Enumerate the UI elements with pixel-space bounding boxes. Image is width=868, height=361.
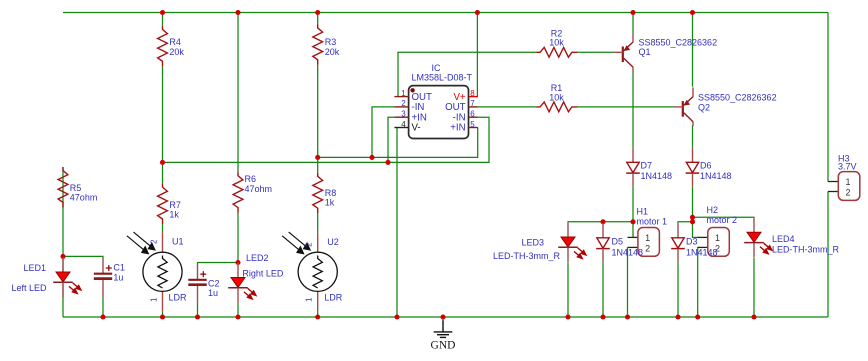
node dot R6 top xyxy=(235,10,240,15)
photoresistor U1 xyxy=(143,232,182,311)
op-amp pin 4 xyxy=(394,120,420,134)
diode D7 xyxy=(626,148,640,187)
ground symbol xyxy=(434,321,453,338)
LED1 xyxy=(53,257,81,297)
svg-text:1: 1 xyxy=(150,297,159,302)
svg-text:1N4148: 1N4148 xyxy=(686,247,718,257)
svg-text:D5: D5 xyxy=(612,237,624,247)
svg-text:1k: 1k xyxy=(325,198,335,208)
LED2 xyxy=(228,263,256,303)
svg-text:Left LED: Left LED xyxy=(11,283,47,293)
wire Q2 emitter to top rail xyxy=(692,13,694,87)
svg-text:U2: U2 xyxy=(327,237,339,247)
diode D3 xyxy=(671,223,685,262)
svg-text:LED-TH-3mm_R: LED-TH-3mm_R xyxy=(772,245,840,255)
wire Q1 collector to D7 xyxy=(632,72,634,148)
svg-text:2: 2 xyxy=(150,239,159,244)
svg-text:1N4148: 1N4148 xyxy=(700,171,732,181)
svg-text:H1: H1 xyxy=(637,207,649,217)
resistor R8 xyxy=(313,173,323,214)
op-amp pin 7 xyxy=(445,99,478,113)
node dot Q1 top xyxy=(630,10,635,15)
node dot R3-R8 tap xyxy=(315,155,320,160)
svg-text:LM358L-D08-T: LM358L-D08-T xyxy=(412,72,473,82)
wire Q1 emitter to top rail xyxy=(632,13,634,34)
svg-text:1: 1 xyxy=(401,89,406,98)
transistor Q1 xyxy=(613,33,633,72)
svg-text:U1: U1 xyxy=(172,237,184,247)
wire bottom rail xyxy=(63,316,828,318)
wire D5 bottom to ground rail xyxy=(602,262,604,317)
svg-text:R6: R6 xyxy=(245,174,257,184)
svg-text:GND: GND xyxy=(431,340,456,352)
wire node B: R4-R7 tap to op-amp pins 3 and 6 xyxy=(163,117,490,162)
node dot C1 ground xyxy=(100,314,105,319)
resistor R2 xyxy=(537,47,578,57)
svg-text:LED2: LED2 xyxy=(246,253,269,263)
svg-text:C1: C1 xyxy=(113,263,125,273)
node dot V+ top xyxy=(475,10,480,15)
node dot R4-R7 tap xyxy=(160,160,165,165)
node dot motor1 xyxy=(630,219,635,224)
wire R4 column xyxy=(162,13,164,318)
svg-text:LDR: LDR xyxy=(169,292,188,302)
resistor R7 xyxy=(158,184,168,225)
node dot motor2-D3 xyxy=(690,219,695,224)
wire H3 pin2 to ground rail xyxy=(827,192,829,318)
node dot D5 top xyxy=(600,219,605,224)
node dot D3 ground xyxy=(675,314,680,319)
op-amp pin 3 xyxy=(394,110,426,124)
resistor R4 xyxy=(158,26,168,67)
wire battery positive drop to H3 pin1 xyxy=(827,13,829,182)
node dot H2 ground xyxy=(695,314,700,319)
svg-text:10k: 10k xyxy=(549,92,564,102)
svg-text:H2: H2 xyxy=(707,205,719,215)
wire D6 cathode down to motor2 node xyxy=(693,187,698,238)
wire op-amp V- pin4 to ground rail xyxy=(396,128,398,318)
svg-text:1: 1 xyxy=(305,297,314,302)
wire node A: R3-R8 tap to op-amp pins 2 and 5 xyxy=(318,107,478,157)
svg-text:1u: 1u xyxy=(113,272,123,282)
svg-text:LED-TH-3mm_R: LED-TH-3mm_R xyxy=(493,251,561,261)
svg-text:3: 3 xyxy=(401,110,406,119)
svg-text:D3: D3 xyxy=(686,237,698,247)
op-amp pin 2 xyxy=(394,99,424,113)
svg-text:1N4148: 1N4148 xyxy=(612,247,644,257)
node dot U1 ground xyxy=(160,314,165,319)
node dot LED3 ground xyxy=(565,314,570,319)
wire LED4 to ground rail xyxy=(753,258,755,317)
resistor R5 xyxy=(58,167,68,208)
svg-text:10k: 10k xyxy=(549,38,564,48)
resistor R6 xyxy=(233,172,243,213)
svg-text:LDR: LDR xyxy=(324,292,343,302)
wire op-amp output2 pin7 to R1 xyxy=(478,106,537,108)
wire D5 top xyxy=(602,222,604,223)
node dot Q2 top xyxy=(690,10,695,15)
svg-text:D7: D7 xyxy=(641,160,653,170)
node dot GND xyxy=(440,314,445,319)
capacitor C2 xyxy=(188,264,206,303)
svg-text:1u: 1u xyxy=(208,288,218,298)
svg-text:R3: R3 xyxy=(325,37,337,47)
svg-text:R8: R8 xyxy=(325,188,337,198)
diode D6 xyxy=(686,148,700,187)
svg-text:R7: R7 xyxy=(169,200,181,210)
diode D5 xyxy=(596,223,610,262)
svg-text:LED1: LED1 xyxy=(23,263,46,273)
svg-text:4: 4 xyxy=(401,120,406,129)
op-amp pin 6 xyxy=(453,110,478,124)
wire H1 pin2 to ground rail xyxy=(627,247,629,317)
resistor R3 xyxy=(313,24,323,65)
wire top rail xyxy=(63,13,828,318)
svg-text:47ohm: 47ohm xyxy=(245,184,273,194)
svg-text:LED4: LED4 xyxy=(772,234,795,244)
connector H2 xyxy=(697,228,729,257)
svg-text:6: 6 xyxy=(470,110,475,119)
svg-text:SS8550_C2826362: SS8550_C2826362 xyxy=(698,93,777,103)
wire C1 branch xyxy=(63,256,103,317)
capacitor C1 xyxy=(94,258,112,297)
op-amp pin 8 xyxy=(453,89,477,103)
svg-text:C2: C2 xyxy=(208,278,220,288)
node dot H1 ground xyxy=(625,314,630,319)
svg-text:+IN: +IN xyxy=(450,123,465,134)
svg-text:7: 7 xyxy=(470,99,475,108)
wire D7 cathode down to motor node xyxy=(632,187,634,238)
wire V+ pin8 to top rail xyxy=(476,13,478,97)
node dot D5 ground xyxy=(600,314,605,319)
svg-text:20k: 20k xyxy=(325,47,340,57)
svg-text:Q2: Q2 xyxy=(698,102,710,112)
node dot C2 ground xyxy=(195,314,200,319)
LED4 xyxy=(744,218,772,258)
node dot R3 top xyxy=(315,10,320,15)
wire H2 pin2 to ground rail xyxy=(697,247,699,317)
op-amp IC body xyxy=(409,86,469,139)
svg-text:SS8550_C2826362: SS8550_C2826362 xyxy=(639,37,718,47)
wire R2 to Q1 base xyxy=(577,51,613,53)
wire D3 bottom to ground rail xyxy=(677,262,679,317)
connector H3 xyxy=(828,172,860,201)
node dot V- ground xyxy=(394,314,399,319)
svg-text:8: 8 xyxy=(470,89,475,98)
transistor Q2 xyxy=(673,87,693,126)
wire LED3 to ground rail xyxy=(567,263,569,317)
svg-text:R4: R4 xyxy=(169,37,181,47)
light arrows U2 xyxy=(282,232,310,254)
op-amp pin 1 xyxy=(394,89,432,103)
svg-text:5: 5 xyxy=(470,120,475,129)
node dot R4 top xyxy=(160,10,165,15)
photoresistor U2 xyxy=(298,232,337,311)
svg-text:R5: R5 xyxy=(70,183,82,193)
svg-text:1N4148: 1N4148 xyxy=(641,171,673,181)
light arrows U1 xyxy=(127,232,155,254)
svg-text:motor 2: motor 2 xyxy=(707,215,738,225)
node dot U2 ground xyxy=(315,314,320,319)
wire R1 to Q2 base xyxy=(577,106,673,108)
op-amp pin 5 xyxy=(450,120,478,134)
svg-text:2: 2 xyxy=(401,99,406,108)
node dot LED2-C2 xyxy=(235,260,240,265)
node dot pin3 join xyxy=(385,160,390,165)
wire C2 branch xyxy=(198,263,239,318)
node dot LED2 ground xyxy=(235,314,240,319)
svg-text:20k: 20k xyxy=(169,47,184,57)
wire op-amp output1 to R2 xyxy=(398,52,537,96)
resistor R1 xyxy=(537,102,578,112)
svg-text:V-: V- xyxy=(412,123,421,134)
connector H1 xyxy=(628,228,660,257)
svg-text:motor 1: motor 1 xyxy=(637,217,668,227)
node dot motor2-LED4 xyxy=(690,215,695,220)
node dot pin2 join xyxy=(369,155,374,160)
wire ground symbol stub xyxy=(442,317,444,322)
wire motor1 node to LED3 xyxy=(568,221,633,224)
svg-text:Q1: Q1 xyxy=(639,47,651,57)
wire Q2 collector to D6 xyxy=(692,125,694,147)
wire motor2 node to LED4 xyxy=(693,216,755,219)
svg-text:LED3: LED3 xyxy=(522,238,545,248)
node dot LED1-C1 xyxy=(60,254,65,259)
svg-text:Right LED: Right LED xyxy=(242,269,284,279)
svg-text:47ohm: 47ohm xyxy=(70,193,98,203)
svg-text:D6: D6 xyxy=(700,160,712,170)
svg-text:2: 2 xyxy=(305,242,314,247)
node dot LED4 ground xyxy=(751,314,756,319)
svg-text:3.7V: 3.7V xyxy=(838,162,857,172)
svg-text:1k: 1k xyxy=(169,210,179,220)
svg-text:IC: IC xyxy=(432,63,442,73)
wire R6 column xyxy=(237,13,239,318)
wire R3 column xyxy=(317,13,319,318)
wire motor2 node to D3 xyxy=(678,222,693,223)
LED3 xyxy=(558,222,586,262)
